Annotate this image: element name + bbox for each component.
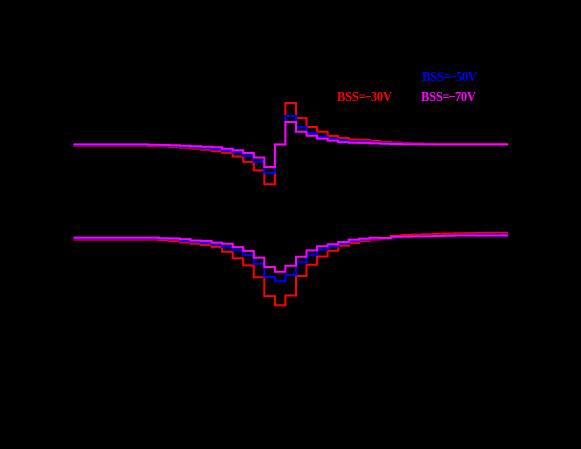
legend entry BSS=-70V (magenta) [421,91,476,105]
bottom-panel histogram BSS=-70V (magenta) [73,236,508,272]
bottom-panel histogram BSS=-50V (blue) [73,234,508,281]
top-panel histogram BSS=-30V (red) [73,103,508,184]
top-panel histogram BSS=-50V (blue) [73,116,508,173]
legend entry BSS=-50V (blue) [422,71,477,85]
bottom-panel histogram BSS=-30V (red) [73,233,508,305]
top-panel histogram BSS=-70V (magenta) [73,122,508,167]
legend entry BSS=-30V (red) [337,91,392,105]
